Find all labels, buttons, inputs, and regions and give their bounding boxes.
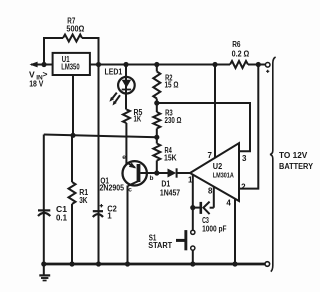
svg-text:C3: C3 (202, 216, 209, 225)
svg-text:D1: D1 (161, 180, 170, 189)
svg-text:1N457: 1N457 (160, 188, 181, 197)
svg-text:LM301A: LM301A (213, 173, 234, 180)
svg-text:4: 4 (226, 198, 231, 207)
svg-text:b: b (150, 175, 154, 182)
svg-text:230 Ω: 230 Ω (165, 116, 182, 125)
svg-text:8: 8 (208, 187, 213, 196)
svg-text:>: > (43, 69, 48, 79)
svg-text:1000 pF: 1000 pF (202, 225, 226, 234)
svg-text:c: c (128, 186, 132, 193)
svg-text:LED1: LED1 (105, 68, 123, 77)
svg-text:V: V (29, 69, 35, 79)
svg-text:LM350: LM350 (61, 62, 80, 71)
svg-text:0.1: 0.1 (56, 214, 68, 223)
svg-text:BATTERY: BATTERY (279, 162, 314, 171)
svg-text:e: e (122, 154, 126, 161)
svg-text:1: 1 (188, 175, 193, 184)
svg-text:1K: 1K (134, 115, 142, 124)
svg-text:18 V: 18 V (29, 79, 44, 88)
svg-text:TO 12V: TO 12V (279, 151, 308, 160)
svg-text:C1: C1 (56, 205, 68, 214)
svg-text:2N2905: 2N2905 (100, 184, 125, 193)
svg-text:3K: 3K (79, 196, 87, 205)
svg-text:R6: R6 (232, 40, 241, 49)
svg-text:15 Ω: 15 Ω (165, 80, 179, 89)
svg-text:1: 1 (107, 211, 112, 220)
svg-text:15K: 15K (164, 153, 177, 162)
svg-text:START: START (148, 241, 172, 250)
svg-text:7: 7 (208, 151, 213, 160)
svg-text:3: 3 (242, 154, 247, 163)
svg-text:0.2 Ω: 0.2 Ω (232, 49, 250, 58)
svg-text:500Ω: 500Ω (66, 25, 85, 34)
svg-text:U2: U2 (213, 162, 223, 171)
svg-text:2: 2 (241, 182, 246, 191)
